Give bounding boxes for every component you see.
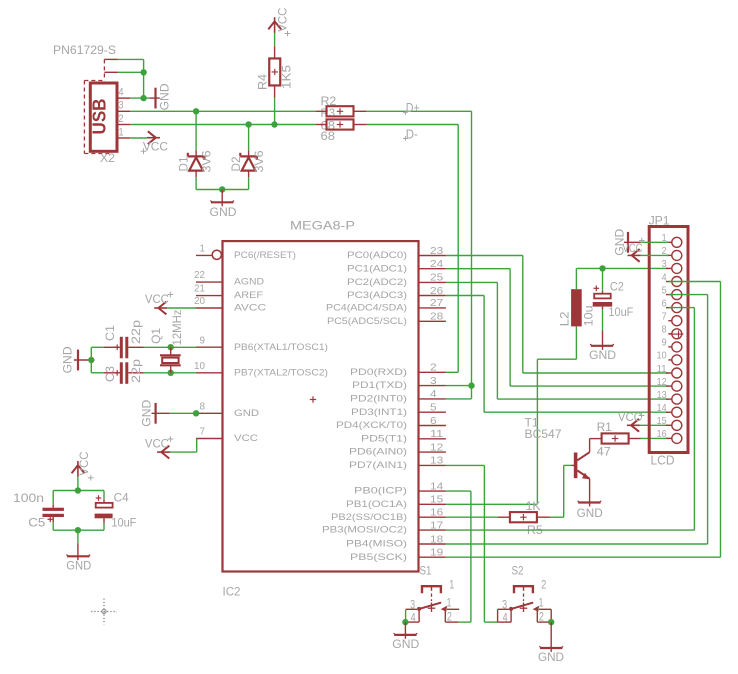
S1 pin 1 stub: [447, 608, 459, 610]
label C1: [105, 325, 117, 341]
wire C3 to XTAL2: [144, 372, 196, 374]
label Q1: [151, 328, 163, 344]
IC2 pin 4 PD2(INT0) stub: [419, 398, 446, 400]
ground GND below C2: [590, 331, 614, 350]
label R4 value 1K5: [282, 65, 294, 89]
GND label crystal: [63, 346, 75, 373]
wire R5 to T1 base: [550, 465, 571, 517]
GND label USB pin4: [160, 83, 172, 110]
JP1 pin 4 stub: [666, 281, 672, 283]
junction XTAL1 Q1: [168, 344, 174, 350]
svg-text:C1: C1: [105, 325, 117, 341]
junction USB pin4 GND: [140, 95, 146, 101]
svg-text:LCD: LCD: [651, 454, 675, 468]
svg-text:2: 2: [447, 612, 452, 624]
resistor R5 1K: [498, 512, 550, 522]
svg-text:R1: R1: [597, 422, 612, 434]
IC2 origin cross: [310, 396, 316, 402]
JP1 origin cross: [669, 331, 683, 338]
svg-text:GND: GND: [160, 83, 172, 110]
JP1 pin number 16: [657, 428, 667, 440]
JP1 pin 9 circle: [672, 342, 682, 352]
svg-text:28: 28: [430, 311, 443, 323]
label C2: [610, 282, 624, 294]
USB pin 3: [117, 110, 130, 112]
IC2 pin 7 VCC stub: [196, 438, 223, 440]
pin name PB0(ICP): [354, 486, 407, 496]
VCC label AVCC: [145, 294, 169, 306]
svg-text:AREF: AREF: [234, 290, 263, 300]
svg-text:12MHz: 12MHz: [172, 309, 184, 345]
svg-text:22: 22: [194, 269, 205, 281]
svg-text:PB1(OC1A): PB1(OC1A): [346, 499, 407, 509]
wire rail to GND: [77, 530, 79, 543]
wire R4 to D- net: [274, 98, 276, 125]
svg-text:L2: L2: [560, 311, 572, 326]
ground GND decoupling: [66, 543, 90, 560]
junction XTAL2 Q1: [168, 370, 174, 376]
svg-text:2: 2: [541, 579, 546, 591]
svg-text:X2: X2: [100, 151, 115, 165]
svg-text:1: 1: [539, 598, 544, 610]
svg-text:1: 1: [119, 126, 124, 138]
label D2 value 3V6: [254, 151, 266, 173]
origin cross VCC top: [285, 31, 291, 37]
svg-text:15: 15: [430, 494, 443, 506]
junction D- at R4: [271, 121, 277, 127]
wire PD0 to D- vertical: [446, 371, 458, 373]
wire C4 top lead: [103, 491, 105, 500]
svg-text:24: 24: [430, 258, 443, 270]
ground GND at JP1 pin1: [624, 232, 641, 253]
svg-text:2: 2: [430, 362, 437, 374]
label S2: [512, 565, 524, 577]
pin number 28: [430, 311, 443, 323]
svg-text:C5: C5: [28, 518, 45, 530]
svg-text:PD7(AIN1): PD7(AIN1): [349, 460, 407, 470]
svg-text:C3: C3: [105, 366, 117, 382]
svg-text:68: 68: [321, 131, 336, 143]
svg-text:4: 4: [430, 388, 437, 400]
JP1 pin number 7: [662, 311, 667, 323]
junction PD1 D+: [468, 382, 474, 388]
svg-text:PD1(TXD): PD1(TXD): [352, 380, 407, 390]
origin cross VCC JP1 pin2: [639, 238, 645, 244]
pin number 2: [430, 362, 437, 374]
label C5 value 100n: [13, 493, 44, 505]
pin number 9: [200, 334, 206, 346]
svg-text:5: 5: [430, 402, 437, 414]
svg-text:VCC: VCC: [234, 433, 258, 443]
JP1 pin 11 circle: [672, 368, 682, 378]
wire C4 bottom lead: [103, 523, 105, 530]
JP1 pin 16 circle: [672, 433, 682, 443]
VCC label decoupling: [79, 452, 91, 476]
IC2 pin 20 AVCC stub: [196, 307, 223, 309]
VCC label top: [277, 8, 289, 32]
svg-text:VCC: VCC: [618, 412, 642, 424]
svg-text:MEGA8-P: MEGA8-P: [290, 219, 355, 233]
JP1 pin 10 stub: [668, 359, 672, 361]
JP1 pin number 5: [662, 284, 667, 296]
crystal Q1 12MHz: [160, 347, 181, 373]
svg-text:18: 18: [430, 533, 443, 545]
S1 pin 3 label: [410, 599, 415, 611]
label D1: [179, 157, 191, 172]
pin name PC0(ADC0): [347, 250, 407, 260]
JP1 pin 2 circle: [672, 250, 682, 260]
svg-text:USB: USB: [89, 99, 110, 135]
IC2 pin 2 PD0(RXD) stub: [419, 371, 446, 373]
JP1 pin number 4: [662, 271, 667, 283]
svg-text:47: 47: [597, 447, 611, 459]
svg-text:R4: R4: [258, 73, 270, 90]
svg-text:PD5(T1): PD5(T1): [361, 433, 407, 443]
S2 pin 2 label: [539, 612, 544, 624]
label D1 value 3V6: [202, 151, 214, 173]
wire bottom rail: [53, 529, 104, 531]
S2 pin 4 riser and stub: [498, 609, 512, 622]
JP1 pin 5 circle: [672, 290, 682, 300]
pin name GND: [234, 408, 259, 418]
pin name AVCC: [234, 303, 266, 313]
S2 pin 3 stub: [498, 608, 510, 610]
S1 fixed contact: [441, 606, 447, 612]
svg-text:GND: GND: [234, 408, 259, 418]
IC2 pin 9 PB6(XTAL1/TOSC1) stub: [196, 346, 223, 348]
JP1 pin 12 stub: [666, 385, 672, 387]
resistor R2 68: [316, 106, 367, 116]
wire PD1 to D+ vertical: [446, 385, 472, 387]
net label D+: [403, 101, 420, 115]
GND label decoupling: [66, 560, 91, 572]
pin name PB5(SCK): [350, 552, 407, 562]
pin number 23: [430, 245, 443, 257]
pin name PC2(ADC2): [347, 277, 407, 287]
S1 actuator dashed line: [428, 594, 436, 613]
wire D1 anode down: [196, 111, 222, 189]
supply VCC at JP1 pin15: [627, 419, 640, 432]
wire PC2 to JP1 pin13: [446, 282, 669, 399]
svg-text:GND: GND: [577, 508, 603, 520]
S1 pin 4 label: [411, 613, 416, 625]
svg-text:C2: C2: [610, 282, 624, 294]
svg-text:26: 26: [430, 285, 443, 297]
IC2 pin 6 PD4(XCK/T0) stub: [419, 425, 446, 427]
pin name VCC: [234, 433, 258, 443]
svg-text:6: 6: [662, 297, 667, 309]
svg-text:16: 16: [430, 507, 443, 519]
pin number 3: [430, 375, 437, 387]
svg-text:GND: GND: [142, 400, 154, 427]
pin name PC4(ADC4/SDA): [326, 303, 407, 313]
svg-text:20: 20: [194, 295, 205, 307]
svg-text:PC0(ADC0): PC0(ADC0): [347, 250, 407, 260]
JP1 pin 6 stub: [666, 307, 672, 309]
supply VCC top: [268, 17, 281, 33]
svg-text:10uF: 10uF: [608, 307, 633, 319]
ground GND at crystal: [74, 350, 90, 371]
S1 moving contact: [417, 603, 441, 611]
wire junction to C2: [602, 268, 604, 291]
label MEGA8-P: [290, 219, 355, 233]
origin cross VCC decoupling: [88, 475, 94, 481]
wire PC1 to JP1 pin12: [446, 269, 669, 386]
junction S2 GND: [548, 619, 554, 625]
svg-text:PC1(ADC1): PC1(ADC1): [347, 263, 407, 273]
svg-text:100n: 100n: [13, 493, 44, 505]
svg-text:VCC: VCC: [79, 452, 91, 476]
junction C2 tap: [599, 265, 605, 271]
pin name AREF: [234, 290, 263, 300]
IC2 pin 11 PD5(T1) stub: [419, 438, 446, 440]
wire JP1 pin6 to PB3: [446, 308, 695, 530]
wire GND to pin8: [170, 412, 196, 414]
svg-text:19: 19: [430, 547, 443, 559]
svg-text:PN61729-S: PN61729-S: [53, 43, 116, 57]
svg-text:GND: GND: [589, 350, 616, 362]
svg-text:D+: D+: [406, 101, 420, 115]
JP1 pin 16 stub: [666, 437, 672, 439]
JP1 pin 11 stub: [666, 372, 672, 374]
svg-text:PB3(MOSI/OC2): PB3(MOSI/OC2): [322, 525, 407, 535]
IC2 pin 22 AGND stub: [196, 281, 223, 283]
JP1 pin 9 stub: [668, 346, 672, 348]
JP1 pin 3 circle: [672, 263, 682, 273]
IC2 pin 14 PB0(ICP) stub: [419, 490, 446, 492]
wire VCC to pin7: [170, 439, 197, 453]
svg-text:10uF: 10uF: [111, 518, 136, 530]
USB connector X2 dashed package outline: [84, 59, 111, 153]
wire shield to GND junction: [118, 59, 144, 98]
wire R1 to JP1 pin16: [641, 437, 669, 439]
pin name PB2(SS/OC1B): [331, 512, 407, 522]
label L2: [560, 311, 572, 326]
label R3 overlapped: [321, 108, 336, 120]
pin name PD0(RXD): [350, 367, 407, 377]
svg-text:PC2(ADC2): PC2(ADC2): [347, 277, 407, 287]
S2 top pin label 2: [541, 579, 546, 591]
label C1 value 22p: [131, 320, 143, 344]
S2 moving contact: [509, 603, 533, 611]
junction pin8: [193, 410, 199, 416]
svg-text:7: 7: [200, 426, 206, 438]
svg-text:14: 14: [430, 480, 443, 492]
label C5: [28, 518, 45, 530]
JP1 pin number 14: [657, 402, 667, 414]
connector X2 name label PN61729-S: [53, 43, 116, 57]
svg-text:3: 3: [430, 375, 437, 387]
IC2 pin 19 PB5(SCK) stub: [419, 556, 446, 558]
connector JP1 body: [649, 227, 688, 453]
supply VCC at IC pin7: [157, 446, 170, 459]
pin number 16: [430, 507, 443, 519]
JP1 pin number 9: [662, 337, 667, 349]
pin number 14: [430, 480, 443, 492]
svg-text:2: 2: [119, 113, 124, 125]
JP1 pin 15 stub: [666, 424, 672, 426]
svg-text:PB5(SCK): PB5(SCK): [350, 552, 407, 562]
S1 bracket button: [422, 586, 441, 593]
label JP1: [649, 214, 670, 228]
svg-text:4: 4: [503, 613, 508, 625]
svg-text:VCC: VCC: [145, 294, 169, 306]
IC2 pin 23 PC0(ADC0) stub: [419, 255, 446, 257]
inductor L2 10u: [571, 289, 582, 326]
USB pin 4: [117, 97, 130, 99]
svg-text:3V6: 3V6: [202, 151, 214, 173]
svg-text:S2: S2: [512, 565, 524, 577]
supply VCC at USB pin1: [147, 131, 160, 144]
wire PC3 to JP1 pin14: [446, 296, 669, 413]
IC2 pin 28 PC5(ADC5/SCL) stub: [419, 320, 446, 322]
JP1 pin number 8: [662, 324, 667, 336]
IC2 pin 3 PD1(TXD) stub: [419, 385, 446, 387]
pin name PD4(XCK/T0): [336, 420, 407, 430]
svg-text:10: 10: [657, 350, 667, 362]
junction S1 GND: [402, 619, 408, 625]
pin number 25: [430, 272, 443, 284]
IC2 pin 8 GND stub: [196, 412, 223, 414]
svg-text:9: 9: [200, 334, 206, 346]
pin number 8: [200, 400, 206, 412]
svg-text:13: 13: [657, 389, 667, 401]
origin cross VCC USB pin1: [141, 148, 147, 154]
S2 pin 1 stub: [539, 608, 551, 610]
JP1 pin 13 circle: [672, 394, 682, 404]
JP1 pin 1 circle: [672, 237, 682, 247]
wire D- vertical to PD0: [457, 125, 459, 373]
junction shield pins: [140, 69, 146, 75]
svg-text:22p: 22p: [131, 359, 143, 383]
JP1 pin number 1: [662, 232, 667, 244]
pin name PB4(MISO): [346, 539, 407, 549]
pin number 24: [430, 258, 443, 270]
wire VCC to JP1 pin15: [640, 424, 669, 426]
svg-text:27: 27: [430, 297, 443, 309]
svg-text:AGND: AGND: [234, 277, 264, 287]
svg-text:R3: R3: [321, 108, 336, 120]
ground GND below S1: [394, 622, 418, 639]
svg-text:4: 4: [119, 87, 124, 99]
svg-text:1: 1: [447, 598, 452, 610]
JP1 pin 2 stub: [666, 254, 672, 256]
JP1 pin number 11: [657, 363, 667, 375]
S1 pin 4 riser and stub: [406, 609, 420, 622]
GND label below S1: [392, 639, 419, 651]
svg-text:3: 3: [662, 258, 667, 270]
label C4 value 10uF: [111, 518, 136, 530]
net label D-: [403, 127, 418, 141]
svg-text:VCC: VCC: [277, 8, 289, 32]
label C2 value 10uF: [608, 307, 633, 319]
S2 pin 4 label: [503, 613, 508, 625]
S2 pin 3 label: [502, 599, 507, 611]
svg-text:R5: R5: [527, 525, 543, 537]
svg-text:4: 4: [662, 271, 667, 283]
wire crystal gnd vertical: [90, 347, 92, 373]
wire PD7 to S2: [446, 465, 498, 622]
IC2 pin 13 PD7(AIN1) stub: [419, 464, 446, 466]
svg-text:1K: 1K: [526, 501, 541, 513]
IC2 pin 24 PC1(ADC1) stub: [419, 268, 446, 270]
wire PB0 to S1: [446, 491, 471, 622]
label C3: [105, 366, 117, 382]
transistor T1 BC547: [572, 439, 590, 507]
pin name PC3(ADC3): [347, 290, 407, 300]
svg-text:2: 2: [539, 612, 544, 624]
pin name PB3(MOSI/OC2): [322, 525, 407, 535]
S1 top pin label 1: [449, 579, 454, 591]
wire PB2 to R5: [446, 516, 498, 518]
svg-text:GND: GND: [63, 346, 75, 373]
pin name PC1(ADC1): [347, 263, 407, 273]
svg-text:VCC: VCC: [623, 243, 643, 255]
IC2 pin 26 PC3(ADC3) stub: [419, 295, 446, 297]
JP1 pin 1 stub: [666, 241, 672, 243]
svg-text:15: 15: [657, 415, 667, 427]
JP1 pin 6 circle: [672, 303, 682, 313]
wire VCC to R4: [274, 33, 276, 46]
label R2 value 68 overlapped: [321, 120, 336, 132]
origin cross VCC JP1 pin15: [639, 413, 645, 419]
svg-text:PB4(MISO): PB4(MISO): [346, 539, 407, 549]
svg-text:PC5(ADC5/SCL): PC5(ADC5/SCL): [327, 316, 407, 326]
IC2 pin 5 PD3(INT1) stub: [419, 411, 446, 413]
wire JP1 pin4 to PB5: [446, 282, 721, 558]
svg-text:10u: 10u: [584, 305, 596, 326]
pin number 20: [194, 295, 205, 307]
ground GND at USB pin4: [150, 88, 160, 109]
USB pin 2: [117, 124, 130, 126]
label R1: [597, 422, 612, 434]
JP1 pin 7 circle: [672, 316, 682, 326]
svg-text:GND: GND: [210, 207, 237, 219]
IC2 pin 1 PC6(/RESET) stub: [196, 250, 221, 259]
pin name PD6(AIN0): [349, 447, 407, 457]
svg-text:Q1: Q1: [151, 328, 163, 344]
svg-text:BC547: BC547: [525, 429, 562, 441]
pin number 10: [194, 360, 205, 372]
junction bottom rail: [75, 527, 81, 533]
label IC2: [223, 585, 241, 599]
S1 pin 1 label: [447, 598, 452, 610]
wire D+ vertical to PD1/PD2: [471, 111, 473, 399]
IC2 pin 17 PB3(MOSI/OC2) stub: [419, 529, 446, 531]
pin number 22: [194, 269, 205, 281]
svg-text:PC3(ADC3): PC3(ADC3): [347, 290, 407, 300]
svg-text:3: 3: [119, 100, 124, 112]
svg-text:PD6(AIN0): PD6(AIN0): [349, 447, 407, 457]
svg-text:PC4(ADC4/SDA): PC4(ADC4/SDA): [326, 303, 407, 313]
svg-text:8: 8: [200, 400, 206, 412]
pin name PD1(TXD): [352, 380, 407, 390]
IC2 pin 21 AREF stub: [196, 295, 223, 297]
svg-text:12: 12: [657, 376, 667, 388]
label R1 value 47: [597, 447, 611, 459]
label R5 value 1K: [526, 501, 541, 513]
svg-text:17: 17: [430, 519, 443, 531]
label R3 value 68: [321, 131, 336, 143]
svg-text:IC2: IC2: [223, 585, 241, 599]
GND label below diodes: [210, 207, 237, 219]
wire PC0 to JP1 pin11: [446, 256, 669, 374]
svg-text:25: 25: [430, 272, 443, 284]
resistor R4 1K5: [269, 46, 280, 97]
IC2 pin 10 PB7(XTAL2/TOSC2) stub: [196, 372, 223, 374]
svg-text:3V6: 3V6: [254, 151, 266, 173]
wire C5 bottom lead: [52, 522, 54, 530]
